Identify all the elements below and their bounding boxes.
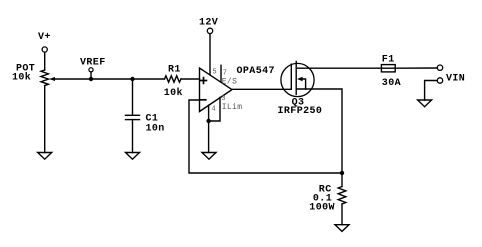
capacitor C1 10n [126,115,140,119]
wire R1 to op-amp + input [181,78,200,80]
wire feedback (inverting input loop) [189,100,342,173]
svg-text:7: 7 [223,70,228,78]
terminal VIN - [437,78,442,83]
svg-text:10k: 10k [164,87,183,99]
svg-text:F1: F1 [382,54,395,65]
resistor RC 0.1 100W [338,187,346,205]
terminal 12V [207,28,212,33]
wire C1 to ground [132,120,134,153]
ground (VIN) [418,100,432,107]
op-amp U1 OPA547 [200,68,233,112]
pin 7 E/S stub [220,65,222,81]
ground (POT) [38,153,52,160]
wire V+ to POT [44,52,46,70]
svg-text:VREF: VREF [80,58,106,69]
wire VREF stub [90,72,92,79]
ground (RC) [335,225,349,232]
resistor R1 10k [165,76,182,82]
wire op-amp output to gate [232,88,291,90]
pin 4 wire to ground [208,105,210,152]
terminal V+ [42,47,47,52]
svg-text:OPA547: OPA547 [237,66,275,77]
node feedback junction [340,171,344,175]
wire rail to C1 [132,79,134,115]
svg-text:30A: 30A [382,78,401,89]
wire drain to fuse [296,67,381,69]
fuse F1 30A [381,65,395,72]
svg-text:12V: 12V [199,18,218,29]
svg-text:VIN: VIN [446,74,465,85]
terminal VIN + [437,65,442,70]
svg-text:4: 4 [212,106,217,114]
svg-text:10n: 10n [146,124,165,135]
wire 12V to op-amp pin 5 [209,34,211,75]
wire fuse to VIN [395,67,437,69]
potentiometer POT 10k [41,70,55,86]
svg-text:R1: R1 [168,64,181,75]
wire source [296,89,342,187]
svg-text:100W: 100W [309,202,335,213]
svg-text:ILim: ILim [222,103,243,112]
transistor Q3 IRFP250 [281,62,314,97]
node C1 junction [130,77,134,81]
wire RC to ground [341,204,343,225]
svg-text:10k: 10k [12,72,31,84]
terminal VREF [89,68,93,72]
svg-text:V+: V+ [38,32,51,43]
wire POT to ground [44,86,46,153]
wire VIN - to ground [425,81,438,101]
wire wiper rail [54,78,165,80]
svg-text:IRFP250: IRFP250 [278,106,323,117]
svg-text:5: 5 [212,68,217,76]
svg-text:E/S: E/S [222,77,238,86]
ground (op-amp) [202,153,216,160]
ground (C1) [126,153,140,160]
svg-text:3: 3 [221,95,226,103]
node pin4 junction [206,119,210,123]
node VREF junction [89,77,93,81]
pin 3 ILim wire [209,97,220,121]
